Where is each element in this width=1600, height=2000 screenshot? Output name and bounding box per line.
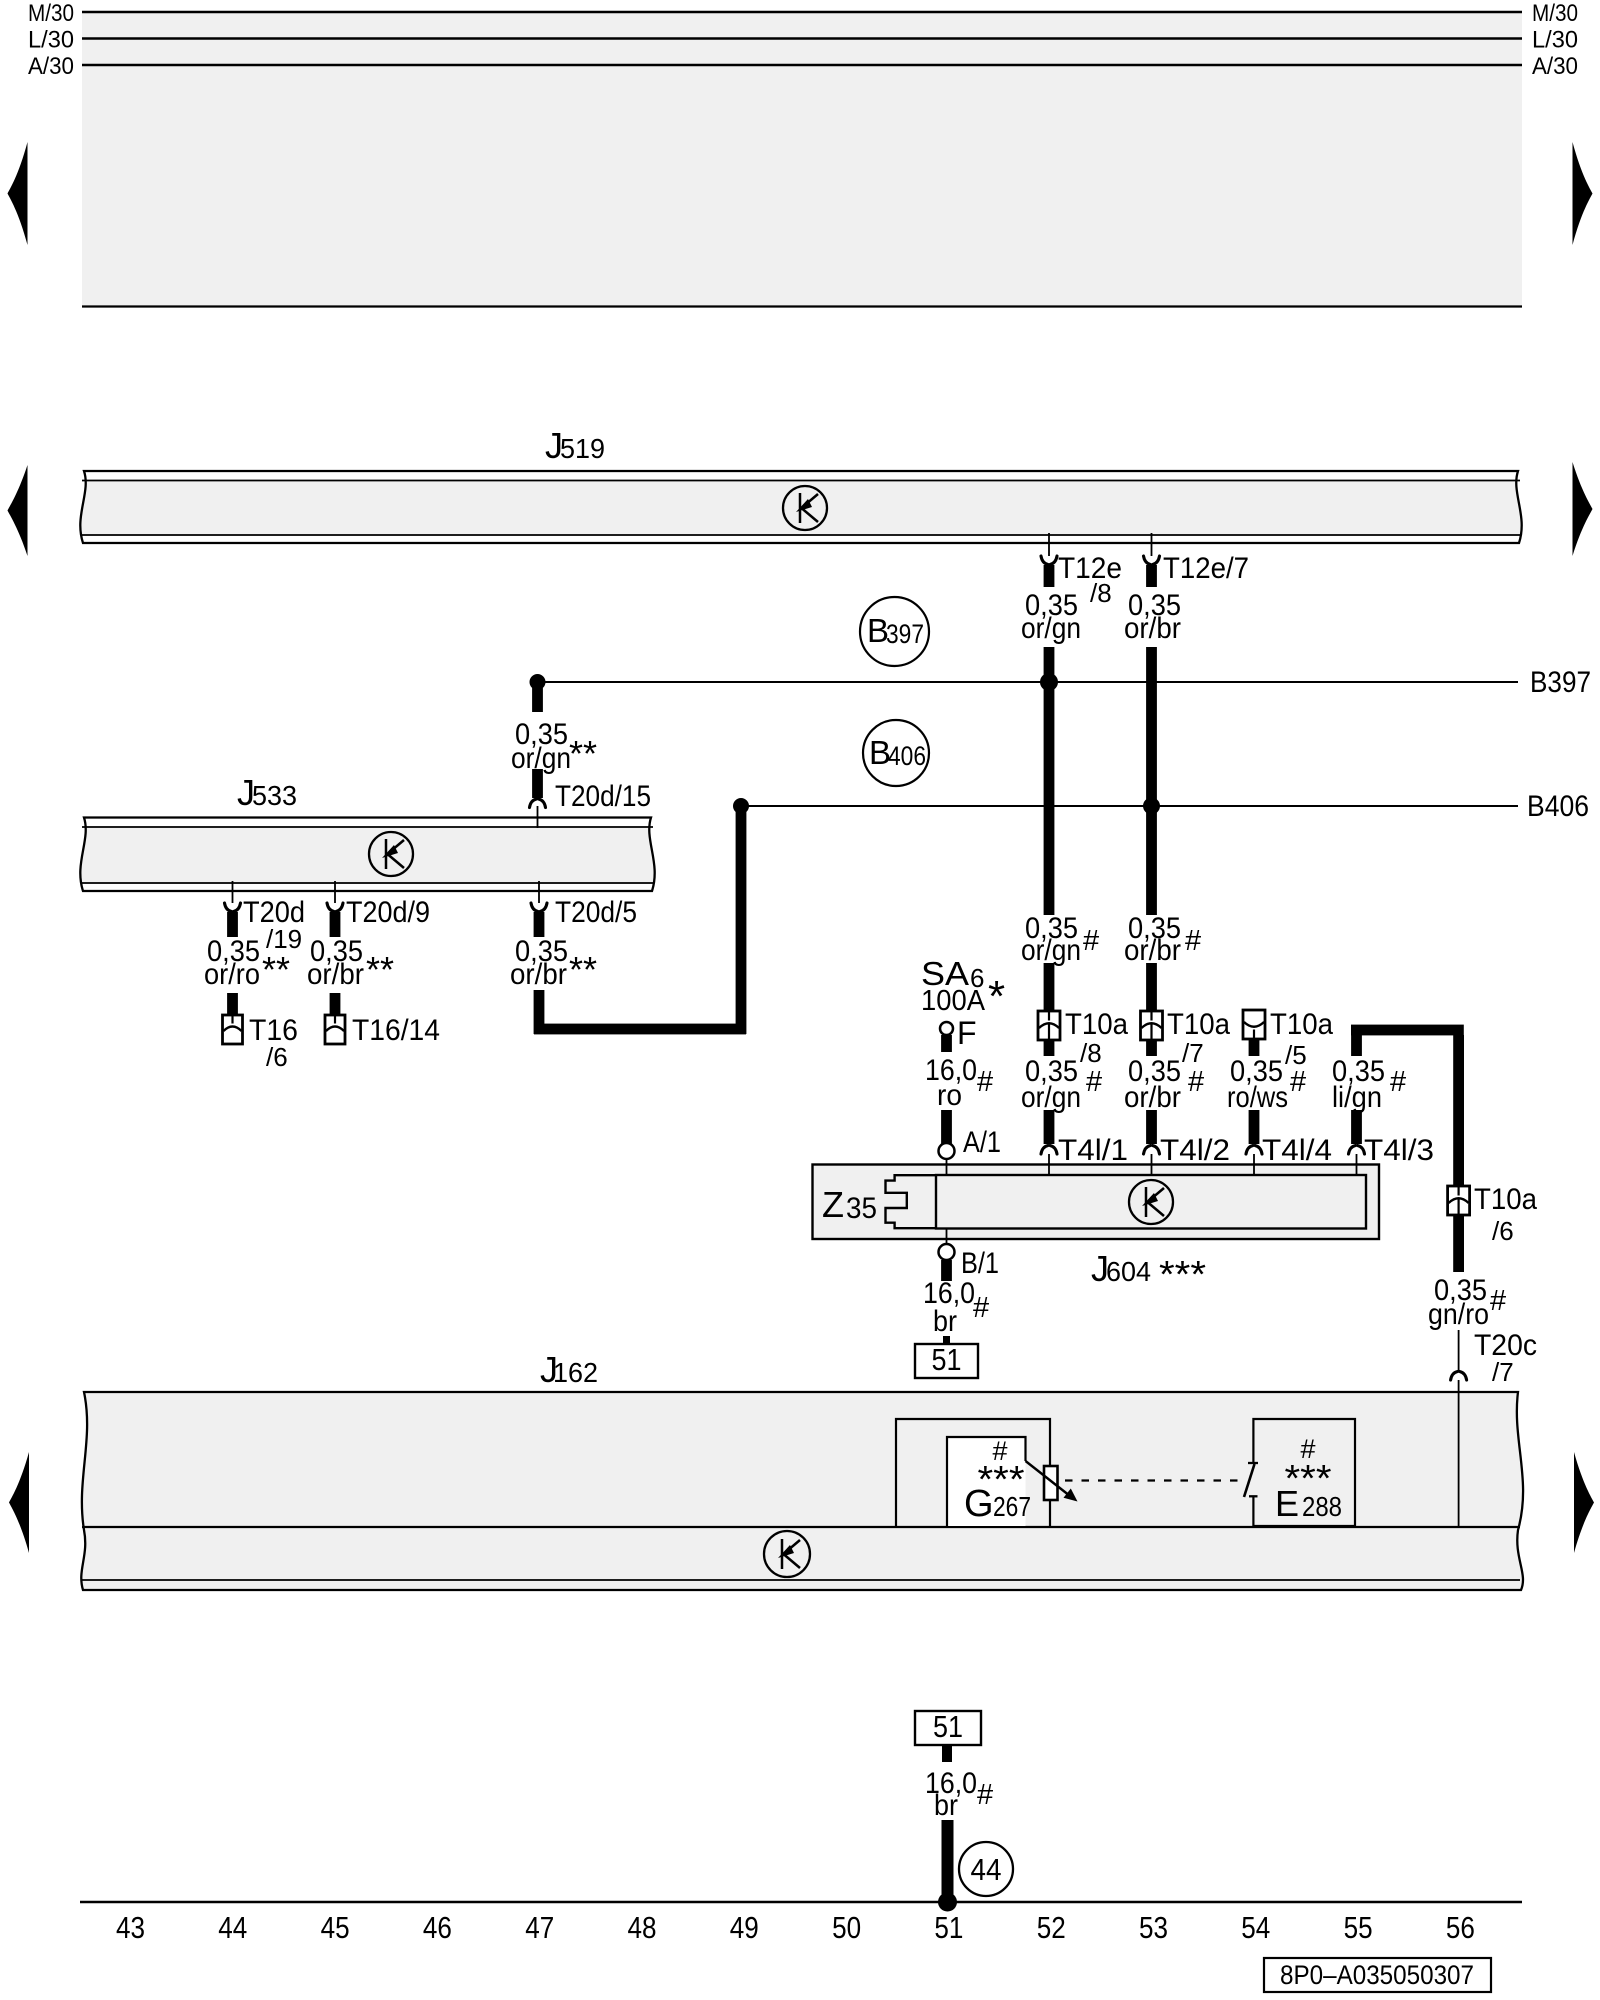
svg-text:100A: 100A [921,985,986,1017]
svg-text:M/30: M/30 [1532,0,1578,27]
svg-text:ro/ws: ro/ws [1227,1081,1288,1114]
svg-text:ro: ro [937,1079,962,1112]
svg-text:56: 56 [1446,1910,1475,1945]
svg-text:or/br: or/br [510,958,567,991]
svg-text:#: # [1083,925,1099,957]
svg-text:50: 50 [832,1910,861,1945]
svg-text:T20d/9: T20d/9 [346,896,430,929]
svg-text:or/ro: or/ro [204,958,260,991]
svg-text:T4l/3: T4l/3 [1364,1134,1434,1167]
svg-text:45: 45 [321,1910,350,1945]
svg-text:L/30: L/30 [28,27,74,54]
svg-text:T20d/5: T20d/5 [555,896,637,929]
svg-text:#: # [1290,1066,1306,1098]
svg-text:35: 35 [846,1192,877,1225]
svg-text:#: # [1185,925,1201,957]
svg-text:A/30: A/30 [28,53,74,80]
svg-text:B406: B406 [1527,790,1589,823]
svg-text:/7: /7 [1182,1038,1204,1068]
svg-text:397: 397 [886,619,924,649]
svg-text:or/br: or/br [1124,1081,1181,1114]
svg-text:533: 533 [252,780,297,811]
svg-text:#: # [1490,1285,1506,1317]
svg-text:L/30: L/30 [1532,27,1578,54]
svg-text:/8: /8 [1090,578,1112,608]
svg-text:43: 43 [116,1910,145,1945]
svg-text:162: 162 [553,1357,598,1388]
svg-text:T10a: T10a [1167,1008,1230,1041]
svg-text:#: # [973,1292,989,1324]
svg-text:#: # [1390,1066,1406,1098]
svg-text:***: *** [1159,1254,1206,1296]
svg-text:T10a: T10a [1065,1008,1128,1041]
svg-text:br: br [933,1305,957,1338]
svg-text:**: ** [366,949,394,990]
svg-text:**: ** [569,733,597,774]
svg-text:gn/ro: gn/ro [1428,1298,1489,1331]
svg-text:#: # [977,1066,993,1098]
svg-text:or/gn: or/gn [1021,612,1081,645]
svg-text:T12e/7: T12e/7 [1163,552,1249,585]
svg-text:T20d/15: T20d/15 [555,780,651,813]
svg-text:E: E [1275,1483,1299,1524]
svg-text:T4l/2: T4l/2 [1160,1134,1230,1167]
svg-text:T4l/4: T4l/4 [1262,1134,1332,1167]
svg-text:G: G [964,1483,994,1525]
svg-text:B/1: B/1 [961,1247,999,1280]
svg-text:47: 47 [525,1910,554,1945]
svg-text:br: br [934,1789,958,1822]
svg-text:55: 55 [1344,1910,1373,1945]
svg-text:**: ** [569,949,597,990]
svg-text:/6: /6 [266,1042,288,1072]
svg-text:288: 288 [1302,1491,1342,1522]
svg-text:or/gn: or/gn [1021,1081,1081,1114]
svg-text:49: 49 [730,1910,759,1945]
svg-text:604: 604 [1106,1256,1151,1287]
svg-text:T4l/1: T4l/1 [1058,1134,1128,1167]
svg-text:51: 51 [933,1709,963,1744]
svg-text:*: * [988,972,1005,1021]
svg-text:#: # [1086,1066,1102,1098]
svg-text:or/br: or/br [1124,934,1181,967]
svg-text:267: 267 [993,1491,1031,1522]
svg-text:53: 53 [1139,1910,1168,1945]
svg-text:/8: /8 [1080,1038,1102,1068]
svg-text:B397: B397 [1530,666,1591,699]
svg-text:/7: /7 [1492,1357,1514,1387]
svg-text:51: 51 [932,1342,962,1377]
svg-text:52: 52 [1037,1910,1066,1945]
svg-text:519: 519 [560,433,605,464]
svg-text:T16/14: T16/14 [352,1014,440,1047]
svg-text:46: 46 [423,1910,452,1945]
svg-text:406: 406 [888,741,926,771]
svg-text:44: 44 [971,1852,1002,1887]
svg-text:Z: Z [822,1184,844,1225]
svg-text:A/30: A/30 [1532,53,1578,80]
svg-text:44: 44 [218,1910,247,1945]
svg-text:or/br: or/br [1124,612,1181,645]
svg-text:li/gn: li/gn [1332,1081,1382,1114]
svg-text:/6: /6 [1492,1216,1514,1246]
svg-text:54: 54 [1241,1910,1270,1945]
svg-text:51: 51 [934,1910,963,1945]
svg-text:#: # [1188,1066,1204,1098]
svg-text:8P0–A035050307: 8P0–A035050307 [1280,1960,1474,1990]
svg-text:T10a: T10a [1270,1008,1333,1041]
svg-text:48: 48 [628,1910,657,1945]
svg-text:**: ** [262,949,290,990]
svg-text:or/br: or/br [307,958,364,991]
svg-text:M/30: M/30 [28,0,74,27]
svg-text:F: F [957,1015,977,1051]
svg-text:A/1: A/1 [963,1126,1001,1159]
svg-text:#: # [977,1779,993,1811]
svg-text:or/gn: or/gn [1021,934,1081,967]
svg-text:T10a: T10a [1474,1183,1537,1216]
